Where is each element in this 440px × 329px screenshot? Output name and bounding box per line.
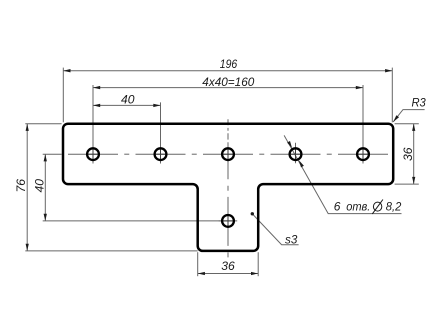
svg-text:76: 76 <box>14 179 28 193</box>
svg-text:36: 36 <box>221 259 235 273</box>
svg-text:8,2: 8,2 <box>386 200 402 214</box>
svg-text:40: 40 <box>121 92 135 106</box>
svg-text:36: 36 <box>401 147 415 161</box>
svg-text:40: 40 <box>32 179 46 193</box>
svg-text:6: 6 <box>334 200 341 214</box>
svg-text:196: 196 <box>220 57 238 71</box>
svg-text:R3: R3 <box>411 95 426 109</box>
svg-text:4x40=160: 4x40=160 <box>202 75 254 89</box>
svg-text:отв.: отв. <box>346 200 370 214</box>
svg-text:s3: s3 <box>285 233 298 247</box>
